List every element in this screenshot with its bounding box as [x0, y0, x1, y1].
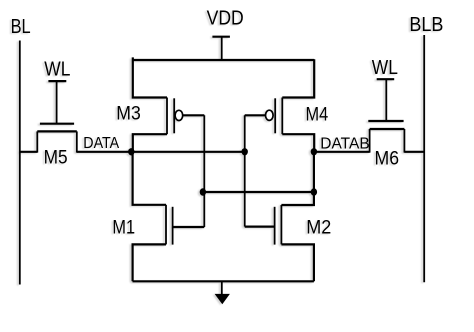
- wire WL left bar: [48, 80, 66, 82]
- wire VDD top rail: [133, 59, 314, 61]
- wire M6 left foot: [369, 129, 371, 153]
- transistor M2 channel bar: [280, 205, 282, 244]
- wire VDD stem: [221, 37, 223, 61]
- transistor M3 PMOS pull-up left: [116, 57, 204, 151]
- ground symbol triangle: [215, 294, 230, 304]
- wire BL to M5: [20, 151, 38, 153]
- wire M3 gate lead: [183, 114, 205, 116]
- transistor M5 channel bar: [37, 130, 77, 132]
- power VDD supply bar: [212, 36, 230, 38]
- wire ground stem: [221, 281, 223, 295]
- svg-text:M5: M5: [44, 147, 68, 168]
- svg-text:WL: WL: [372, 56, 398, 78]
- wire M6 right foot: [403, 129, 405, 153]
- transistor M3 gate bubble: [175, 110, 183, 120]
- transistor M6 channel bar: [370, 128, 405, 130]
- wire BLB vertical bit line: [423, 35, 425, 282]
- svg-text:BLB: BLB: [409, 14, 443, 36]
- node junction dot M2 drain: [311, 188, 317, 195]
- wire M1 gate lead: [173, 226, 205, 228]
- transistor M1 gate bar: [172, 207, 174, 245]
- wire M4 drain to DATAB: [282, 134, 314, 152]
- transistor M6 gate bar: [368, 120, 403, 122]
- transistor M2 gate bar: [274, 207, 276, 245]
- wire M3 drain to DATA: [133, 134, 167, 152]
- wire WL right bar: [377, 78, 395, 80]
- wire cross-couple to DATAB: [204, 191, 314, 193]
- transistor M5 gate bar: [40, 123, 74, 125]
- svg-text:WL: WL: [44, 57, 70, 79]
- svg-text:M3: M3: [116, 102, 141, 124]
- svg-text:DATA: DATA: [83, 136, 119, 153]
- wire right inverter gate column: [244, 115, 246, 226]
- wire ground bottom rail: [133, 280, 314, 282]
- node DATAB junction dot: [311, 148, 317, 155]
- wire WL left stem to M5 gate: [56, 81, 58, 124]
- transistor M1 NMOS pull-down left: [112, 152, 204, 282]
- wire M2 source to ground rail: [281, 244, 314, 281]
- svg-text:VDD: VDD: [207, 6, 244, 28]
- transistor M4 gate bubble: [266, 110, 274, 120]
- wire M3 source from VDD rail: [133, 57, 167, 97]
- transistor M4 channel bar: [281, 98, 283, 135]
- wire M4 gate lead: [245, 114, 266, 116]
- transistor M4 gate bar: [274, 98, 276, 133]
- svg-text:M1: M1: [112, 216, 135, 237]
- wire DATAB node to M6: [314, 151, 370, 153]
- svg-text:M6: M6: [375, 147, 400, 169]
- wire M4 source from VDD rail: [282, 59, 314, 97]
- transistor M2 NMOS pull-down right: [245, 152, 332, 282]
- wire M1 drain from DATA: [133, 152, 166, 205]
- transistor M3 gate bar: [173, 98, 175, 133]
- wire left inverter gate column: [203, 115, 205, 227]
- wire M1 source to ground rail: [133, 244, 166, 281]
- wire M5 left source foot: [36, 131, 38, 152]
- wire M5 right drain foot: [76, 131, 78, 152]
- transistor M6 access NMOS (horizontal): [368, 121, 404, 168]
- transistor M4 PMOS pull-up right: [245, 59, 329, 151]
- svg-text:BL: BL: [11, 15, 31, 38]
- node junction dot left gate column: [200, 188, 206, 195]
- wire M2 drain from DATAB: [281, 152, 314, 205]
- wire WL right stem to M6 gate: [385, 79, 387, 121]
- wire M5 to DATA node: [77, 151, 245, 153]
- transistor M3 channel bar: [166, 98, 168, 135]
- node DATA junction dot: [128, 148, 134, 155]
- transistor M5 access NMOS (horizontal): [37, 124, 77, 168]
- node junction dot right gate column: [242, 148, 248, 155]
- wire M6 to BLB: [404, 151, 424, 153]
- svg-text:DATAB: DATAB: [320, 135, 369, 152]
- transistor M1 channel bar: [165, 205, 167, 245]
- wire M2 gate lead: [245, 226, 275, 228]
- svg-text:M4: M4: [306, 103, 329, 124]
- wire BL vertical bit line: [19, 41, 21, 285]
- svg-text:M2: M2: [306, 216, 331, 238]
